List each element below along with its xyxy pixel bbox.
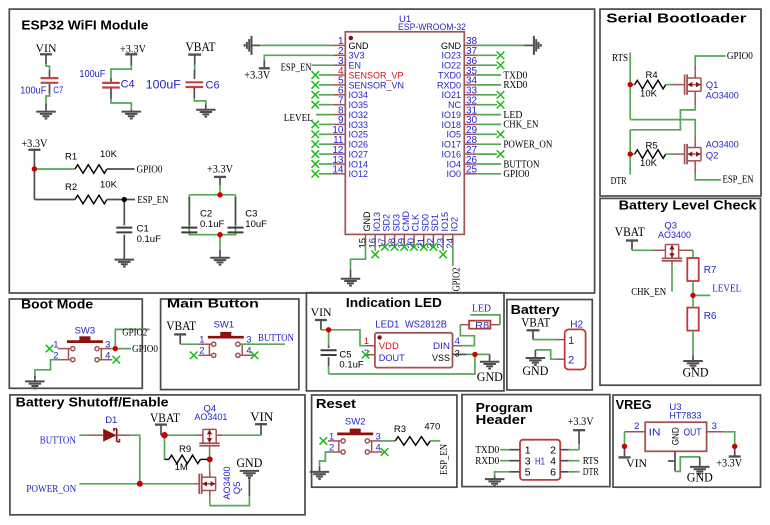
svg-text:C4: C4 bbox=[121, 79, 135, 91]
svg-text:RTS: RTS bbox=[583, 456, 599, 467]
svg-text:VIN: VIN bbox=[250, 409, 274, 424]
svg-text:R1: R1 bbox=[65, 152, 77, 163]
svg-text:2: 2 bbox=[634, 421, 639, 432]
svg-text:IO22: IO22 bbox=[441, 61, 461, 71]
svg-text:IO32: IO32 bbox=[349, 110, 369, 120]
svg-text:3: 3 bbox=[105, 340, 110, 351]
svg-text:IO21: IO21 bbox=[441, 90, 461, 100]
svg-text:LED: LED bbox=[472, 304, 491, 315]
svg-text:10uF: 10uF bbox=[245, 219, 267, 230]
svg-text:C6: C6 bbox=[206, 79, 220, 91]
svg-text:1: 1 bbox=[364, 336, 369, 347]
svg-text:GND: GND bbox=[362, 211, 372, 232]
svg-text:GPIO0: GPIO0 bbox=[727, 51, 753, 62]
svg-text:HT7833: HT7833 bbox=[669, 411, 701, 422]
svg-text:DOUT: DOUT bbox=[379, 353, 405, 364]
svg-text:VSS: VSS bbox=[432, 353, 450, 364]
svg-text:IO0: IO0 bbox=[446, 169, 461, 179]
svg-text:SD2: SD2 bbox=[382, 214, 392, 232]
svg-text:Header: Header bbox=[476, 413, 526, 427]
svg-text:1: 1 bbox=[568, 335, 574, 347]
svg-text:3V3: 3V3 bbox=[349, 51, 365, 61]
svg-text:Battery Shutoff/Enable: Battery Shutoff/Enable bbox=[16, 395, 169, 409]
svg-text:POWER_ON: POWER_ON bbox=[503, 140, 552, 151]
svg-text:SENSOR_VN: SENSOR_VN bbox=[349, 80, 405, 90]
svg-text:GND: GND bbox=[683, 364, 709, 379]
svg-text:LED1: LED1 bbox=[375, 320, 399, 331]
svg-text:IO12: IO12 bbox=[349, 169, 369, 179]
svg-text:GND: GND bbox=[671, 427, 682, 445]
svg-text:Boot Mode: Boot Mode bbox=[21, 298, 93, 312]
svg-text:10K: 10K bbox=[100, 149, 118, 160]
svg-text:2: 2 bbox=[199, 346, 204, 357]
svg-text:NC: NC bbox=[448, 100, 461, 110]
svg-text:AO3401: AO3401 bbox=[194, 412, 227, 423]
svg-text:OUT: OUT bbox=[684, 427, 702, 439]
svg-text:6: 6 bbox=[550, 467, 556, 479]
svg-text:EN: EN bbox=[349, 61, 362, 71]
svg-text:IN: IN bbox=[649, 427, 661, 439]
svg-text:GPIO0: GPIO0 bbox=[132, 344, 158, 355]
svg-text:VBAT: VBAT bbox=[186, 39, 216, 54]
svg-text:GND: GND bbox=[477, 369, 503, 384]
svg-text:VREG: VREG bbox=[616, 398, 652, 412]
svg-text:VIN: VIN bbox=[36, 41, 57, 55]
svg-text:+3.3V: +3.3V bbox=[716, 455, 742, 469]
svg-text:470: 470 bbox=[424, 422, 440, 433]
svg-text:+3.3V: +3.3V bbox=[207, 162, 233, 176]
svg-text:SENSOR_VP: SENSOR_VP bbox=[349, 70, 404, 80]
svg-text:R7: R7 bbox=[704, 265, 717, 276]
svg-text:DTR: DTR bbox=[583, 467, 599, 478]
svg-text:DIN: DIN bbox=[433, 341, 450, 352]
svg-text:ESP32 WiFI Module: ESP32 WiFI Module bbox=[21, 19, 148, 33]
svg-text:IO23: IO23 bbox=[441, 51, 461, 61]
svg-text:IO25: IO25 bbox=[349, 130, 369, 140]
svg-text:+3.3V: +3.3V bbox=[21, 136, 47, 150]
svg-text:SD1: SD1 bbox=[430, 214, 440, 232]
svg-text:0.1uF: 0.1uF bbox=[200, 219, 224, 230]
svg-text:10K: 10K bbox=[640, 88, 658, 99]
svg-text:SD0: SD0 bbox=[420, 214, 430, 232]
svg-text:0.1uF: 0.1uF bbox=[339, 360, 363, 371]
svg-text:IO33: IO33 bbox=[349, 120, 369, 130]
svg-text:BUTTON: BUTTON bbox=[258, 333, 294, 344]
svg-text:100uF: 100uF bbox=[20, 85, 46, 97]
svg-text:TXD0: TXD0 bbox=[438, 70, 461, 80]
svg-text:SW1: SW1 bbox=[214, 319, 235, 330]
svg-text:24: 24 bbox=[445, 238, 456, 249]
svg-text:R9: R9 bbox=[179, 444, 191, 455]
svg-text:1M: 1M bbox=[175, 462, 188, 473]
svg-text:Main Button: Main Button bbox=[167, 297, 259, 311]
svg-text:R2: R2 bbox=[65, 182, 77, 193]
svg-text:R8: R8 bbox=[475, 321, 489, 332]
svg-text:DTR: DTR bbox=[611, 176, 627, 187]
svg-text:VBAT: VBAT bbox=[166, 318, 196, 333]
svg-text:CHK_EN: CHK_EN bbox=[631, 287, 666, 298]
svg-text:GPIO2: GPIO2 bbox=[451, 268, 462, 292]
svg-text:SW2: SW2 bbox=[345, 417, 366, 428]
svg-text:R3: R3 bbox=[394, 424, 406, 435]
svg-text:IO15: IO15 bbox=[440, 212, 450, 232]
svg-text:H1: H1 bbox=[535, 456, 545, 467]
svg-text:100uF: 100uF bbox=[79, 68, 105, 80]
svg-text:GND: GND bbox=[349, 41, 370, 51]
svg-text:IO2: IO2 bbox=[450, 217, 460, 232]
svg-text:10K: 10K bbox=[100, 180, 118, 191]
svg-text:R6: R6 bbox=[704, 311, 717, 322]
svg-text:4: 4 bbox=[246, 346, 251, 357]
svg-text:WS2812B: WS2812B bbox=[405, 320, 447, 331]
svg-text:CLK: CLK bbox=[411, 214, 421, 232]
svg-text:GPIO0: GPIO0 bbox=[137, 164, 163, 175]
svg-text:AO3400: AO3400 bbox=[658, 230, 691, 241]
svg-text:GND: GND bbox=[522, 363, 548, 378]
svg-text:AO3400: AO3400 bbox=[706, 90, 739, 101]
svg-text:GPIO0: GPIO0 bbox=[503, 169, 529, 180]
svg-text:RXD0: RXD0 bbox=[503, 80, 527, 91]
svg-text:SW3: SW3 bbox=[75, 325, 96, 336]
svg-text:C7: C7 bbox=[53, 85, 63, 95]
svg-text:LEVEL: LEVEL bbox=[712, 284, 741, 295]
svg-text:VBAT: VBAT bbox=[150, 410, 180, 425]
svg-text:SD3: SD3 bbox=[391, 214, 401, 232]
svg-text:ESP_EN: ESP_EN bbox=[137, 195, 168, 206]
svg-text:ESP_EN: ESP_EN bbox=[723, 175, 754, 186]
svg-text:Q2: Q2 bbox=[706, 151, 719, 162]
svg-text:VBAT: VBAT bbox=[615, 224, 645, 239]
svg-text:GPIO2: GPIO2 bbox=[122, 327, 147, 338]
svg-text:ESP_EN: ESP_EN bbox=[439, 444, 450, 475]
svg-text:Indication LED: Indication LED bbox=[346, 296, 442, 310]
svg-text:5: 5 bbox=[525, 467, 531, 479]
svg-text:3: 3 bbox=[712, 421, 717, 432]
svg-text:1: 1 bbox=[329, 432, 334, 443]
svg-text:4: 4 bbox=[376, 443, 381, 454]
svg-text:+3.3V: +3.3V bbox=[568, 414, 594, 428]
svg-text:IO18: IO18 bbox=[441, 120, 461, 130]
svg-text:H2: H2 bbox=[570, 320, 583, 331]
svg-text:CMD: CMD bbox=[401, 211, 411, 232]
svg-text:25: 25 bbox=[466, 165, 478, 176]
svg-text:IO35: IO35 bbox=[349, 100, 369, 110]
svg-text:4: 4 bbox=[105, 351, 110, 362]
svg-text:RTS: RTS bbox=[612, 53, 628, 64]
svg-text:Reset: Reset bbox=[316, 397, 357, 411]
svg-text:IO34: IO34 bbox=[349, 90, 369, 100]
svg-text:ESP-WROOM-32: ESP-WROOM-32 bbox=[398, 22, 466, 33]
svg-text:IO13: IO13 bbox=[372, 212, 382, 232]
svg-text:AO3400: AO3400 bbox=[706, 140, 739, 151]
svg-text:IO27: IO27 bbox=[349, 150, 369, 160]
svg-text:BUTTON: BUTTON bbox=[40, 435, 76, 446]
svg-text:GND: GND bbox=[236, 455, 262, 470]
svg-text:+3.3V: +3.3V bbox=[244, 68, 270, 82]
svg-text:RXD0: RXD0 bbox=[437, 80, 461, 90]
svg-text:100uF: 100uF bbox=[146, 77, 181, 91]
svg-text:IO17: IO17 bbox=[441, 140, 461, 150]
svg-text:1: 1 bbox=[53, 340, 58, 351]
svg-text:Q5: Q5 bbox=[232, 482, 243, 495]
svg-text:D1: D1 bbox=[105, 415, 117, 426]
svg-text:Serial Bootloader: Serial Bootloader bbox=[606, 12, 746, 26]
svg-text:ESP_EN: ESP_EN bbox=[281, 63, 312, 74]
svg-text:VIN: VIN bbox=[626, 456, 647, 470]
svg-text:RXD0: RXD0 bbox=[475, 456, 499, 467]
svg-text:R4: R4 bbox=[646, 70, 658, 81]
svg-text:R5: R5 bbox=[646, 141, 658, 152]
svg-text:VIN: VIN bbox=[311, 305, 332, 319]
svg-text:VDD: VDD bbox=[379, 341, 399, 352]
svg-text:LEVEL: LEVEL bbox=[284, 113, 313, 124]
svg-text:Battery Level Check: Battery Level Check bbox=[619, 199, 757, 213]
svg-text:IO16: IO16 bbox=[441, 150, 461, 160]
svg-text:IO19: IO19 bbox=[441, 110, 461, 120]
svg-text:VBAT: VBAT bbox=[521, 315, 550, 330]
svg-text:GND: GND bbox=[687, 470, 713, 485]
svg-text:CHK_EN: CHK_EN bbox=[503, 120, 538, 131]
svg-text:TXD0: TXD0 bbox=[475, 445, 499, 456]
svg-text:10K: 10K bbox=[640, 158, 658, 169]
svg-text:2: 2 bbox=[568, 354, 574, 366]
svg-text:0.1uF: 0.1uF bbox=[137, 234, 161, 245]
svg-text:IO14: IO14 bbox=[349, 159, 369, 169]
svg-text:GND: GND bbox=[441, 41, 462, 51]
svg-text:1: 1 bbox=[199, 335, 204, 346]
svg-text:IO4: IO4 bbox=[446, 159, 461, 169]
svg-text:POWER_ON: POWER_ON bbox=[26, 484, 76, 495]
svg-text:IO5: IO5 bbox=[446, 130, 461, 140]
svg-text:14: 14 bbox=[332, 165, 344, 176]
svg-text:IO26: IO26 bbox=[349, 140, 369, 150]
